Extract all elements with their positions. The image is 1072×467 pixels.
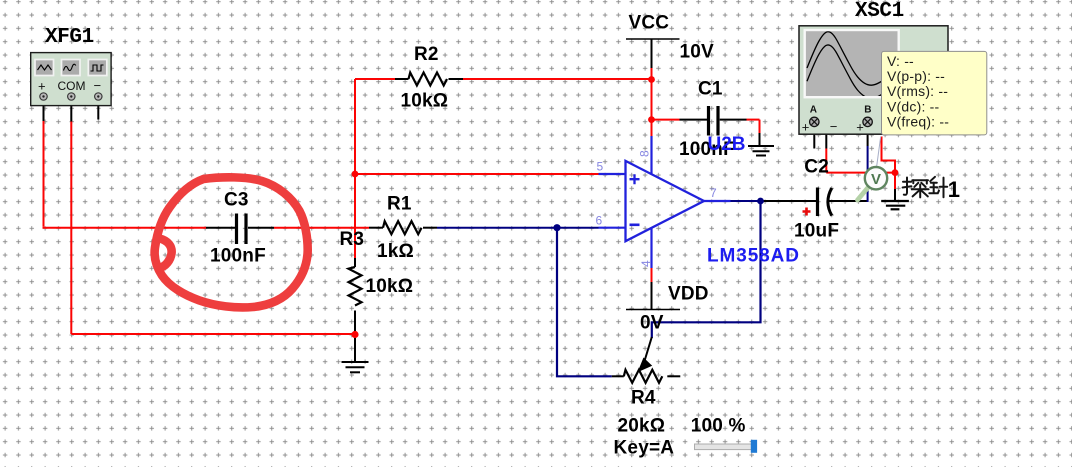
svg-text:Key=A: Key=A [614,438,675,459]
svg-text:8: 8 [638,150,652,157]
svg-text:+: + [856,120,864,135]
svg-text:V(freq): --: V(freq): -- [887,113,949,129]
svg-text:0V: 0V [640,313,664,334]
svg-text:A: A [810,105,817,116]
svg-text:R2: R2 [414,44,439,65]
svg-text:XSC1: XSC1 [855,0,904,23]
svg-text:LM358AD: LM358AD [707,246,800,267]
svg-text:V: --: V: -- [887,53,914,69]
svg-text:20kΩ: 20kΩ [618,416,666,437]
svg-text:4: 4 [639,260,653,267]
svg-text:100 %: 100 % [691,416,746,437]
svg-text:7: 7 [710,186,717,200]
svg-text:V(rms): --: V(rms): -- [887,83,948,99]
svg-text:C1: C1 [698,78,723,99]
svg-text:V(p-p): --: V(p-p): -- [887,68,945,84]
svg-text:10uF: 10uF [794,221,839,242]
svg-text:5: 5 [597,160,604,174]
svg-text:VCC: VCC [629,13,670,34]
svg-text:100nF: 100nF [210,246,266,267]
svg-text:V(dc): --: V(dc): -- [887,98,939,114]
svg-text:R1: R1 [387,194,412,215]
svg-text:−: − [94,78,102,93]
svg-text:−: − [830,119,838,134]
svg-text:COM: COM [58,79,86,93]
svg-text:V: V [871,171,881,188]
svg-text:U2B: U2B [708,134,746,155]
svg-text:C2: C2 [804,156,829,177]
svg-text:VDD: VDD [668,284,709,305]
svg-text:10V: 10V [680,41,715,62]
svg-text:R4: R4 [631,388,656,409]
svg-text:C3: C3 [224,190,249,211]
svg-text:+: + [38,79,46,94]
svg-text:B: B [864,105,871,116]
svg-text:6: 6 [596,214,603,228]
svg-text:1: 1 [948,177,960,202]
svg-text:R3: R3 [340,229,365,250]
svg-text:10kΩ: 10kΩ [366,276,414,297]
svg-text:XFG1: XFG1 [45,26,94,49]
svg-text:1kΩ: 1kΩ [377,241,414,262]
svg-text:10kΩ: 10kΩ [401,91,449,112]
svg-text:+: + [802,120,810,135]
